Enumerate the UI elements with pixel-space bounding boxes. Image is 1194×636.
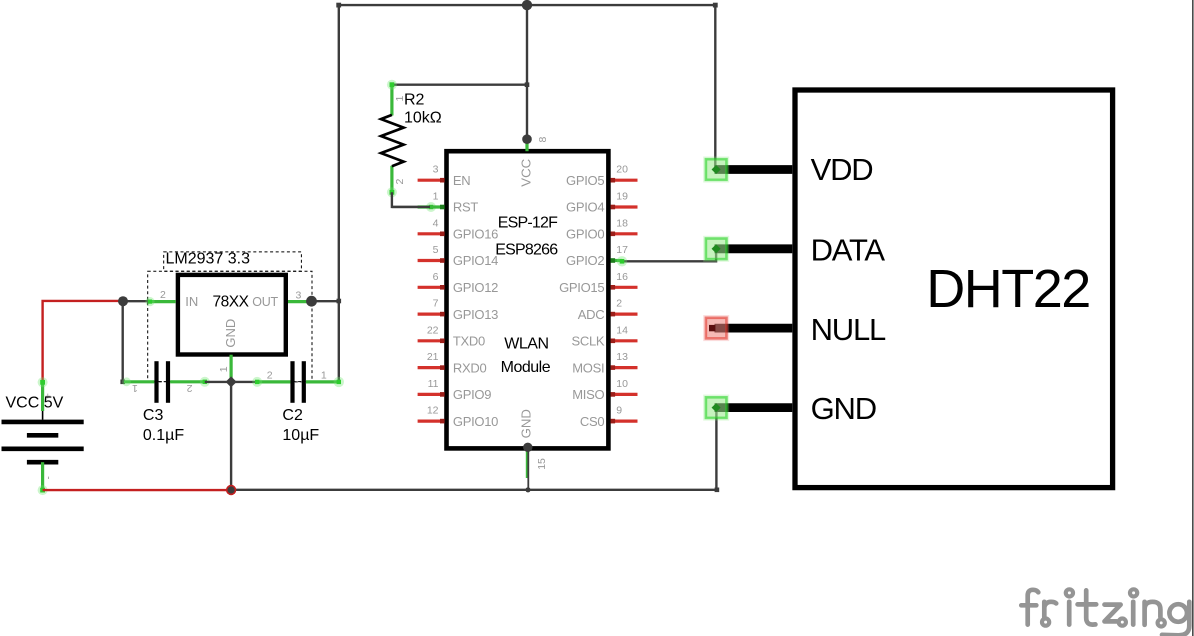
wire IN node down to C3 pin1 — [121, 301, 123, 382]
svg-text:-: - — [44, 476, 55, 479]
pin DATA of DHT22 — [703, 233, 885, 268]
node IN junction — [118, 296, 128, 306]
wire C3 pin2 to GND junction — [205, 381, 231, 383]
wire OUT node to top-rail vertical — [312, 300, 339, 302]
node junction top rail — [522, 0, 532, 10]
svg-text:TXD0: TXD0 — [453, 334, 485, 349]
sensor U3 DHT22 body — [795, 90, 1113, 488]
svg-text:SCLK: SCLK — [572, 334, 605, 349]
battery VCC 5V — [2, 377, 84, 495]
pin GPIO15 16 — [559, 271, 637, 295]
svg-text:2: 2 — [394, 179, 406, 185]
svg-text:ESP-12F: ESP-12F — [498, 214, 558, 231]
svg-text:GPIO2: GPIO2 — [566, 253, 604, 268]
svg-text:NULL: NULL — [811, 312, 886, 347]
svg-text:19: 19 — [616, 191, 628, 203]
pin MOSI 13 — [572, 351, 637, 375]
op-amp U1 ESP-12F module body — [447, 151, 609, 448]
svg-text:2: 2 — [187, 382, 193, 394]
svg-text:7: 7 — [433, 298, 439, 310]
node bottom rail junction — [226, 485, 236, 495]
pin 15 GND bottom stub — [526, 451, 529, 478]
svg-text:14: 14 — [616, 324, 628, 336]
svg-text:ADC: ADC — [578, 307, 605, 322]
svg-text:0.1µF: 0.1µF — [143, 427, 184, 444]
pin SCLK 14 — [572, 324, 638, 348]
pin 3 OUT stub — [288, 300, 312, 303]
svg-text:EN: EN — [453, 173, 470, 188]
svg-text:MISO: MISO — [572, 387, 604, 402]
wire IN node to regulator IN — [123, 300, 150, 302]
svg-text:78XX: 78XX — [213, 293, 250, 310]
pin TXD0 22 — [418, 324, 485, 348]
svg-text:21: 21 — [427, 351, 439, 363]
node GND junction (diamond) — [226, 376, 237, 387]
svg-text:GPIO12: GPIO12 — [453, 280, 498, 295]
svg-text:VDD: VDD — [811, 152, 873, 187]
node OUT junction — [306, 296, 317, 307]
wire top rail VCC net — [339, 4, 716, 6]
svg-text:VCC: VCC — [519, 158, 534, 186]
svg-text:DHT22: DHT22 — [926, 259, 1090, 319]
wire bottom rail dark (GND net) — [231, 489, 717, 491]
pin GPIO13 7 — [418, 298, 499, 322]
svg-text:GPIO16: GPIO16 — [453, 227, 498, 242]
wire bottom rail red (battery minus) — [43, 489, 232, 491]
pin MISO 10 — [572, 378, 637, 402]
svg-text:GPIO0: GPIO0 — [566, 227, 604, 242]
pin RXD0 21 — [418, 351, 487, 375]
wire vertical from top rail to OUT node — [338, 5, 340, 301]
svg-text:C3: C3 — [143, 407, 164, 424]
wire GND junction down to bottom rail — [230, 382, 232, 490]
svg-text:GND: GND — [811, 391, 876, 426]
svg-text:6: 6 — [433, 271, 439, 283]
pin 2 IN stub — [148, 300, 175, 303]
pin EN 3 — [418, 164, 471, 188]
wire GPIO2 to DHT22 DATA — [622, 249, 716, 261]
wire R2 top to VCC net — [392, 83, 527, 85]
svg-text:DATA: DATA — [811, 233, 886, 268]
svg-text:2: 2 — [616, 298, 622, 310]
pin GPIO2 17 — [566, 244, 628, 268]
pin GPIO16 4 — [418, 217, 499, 241]
right edge border line — [1192, 0, 1194, 636]
pin VDD of DHT22 — [703, 152, 872, 187]
svg-text:22: 22 — [427, 324, 439, 336]
svg-text:5: 5 — [433, 244, 439, 256]
svg-text:WLAN: WLAN — [504, 336, 548, 353]
svg-text:RXD0: RXD0 — [453, 360, 487, 375]
svg-text:2: 2 — [267, 370, 273, 382]
pin GPIO4 19 — [566, 191, 637, 215]
svg-text:1: 1 — [321, 370, 327, 382]
fritzing logo — [1021, 589, 1189, 635]
resistor R2 — [381, 80, 442, 198]
svg-text:18: 18 — [616, 217, 628, 229]
wire battery plus to IN node (red) — [43, 301, 123, 382]
svg-text:16: 16 — [616, 271, 628, 283]
svg-text:10µF: 10µF — [282, 427, 319, 444]
node small junction at ESP GND — [525, 487, 530, 492]
svg-text:R2: R2 — [404, 92, 425, 109]
pin GPIO9 11 — [418, 378, 492, 402]
svg-text:C2: C2 — [282, 407, 303, 424]
wire GND junction to C2 pin2 — [231, 381, 257, 383]
svg-text:4: 4 — [433, 217, 439, 229]
pin GND of DHT22 — [703, 391, 876, 426]
svg-text:1: 1 — [132, 382, 138, 394]
pin GPIO14 5 — [418, 244, 499, 268]
pin 8 VCC top stub — [525, 139, 528, 151]
svg-text:12: 12 — [427, 405, 439, 417]
voltage regulator U2 78XX body — [178, 275, 286, 355]
svg-text:ESP8266: ESP8266 — [495, 241, 558, 258]
svg-text:1: 1 — [433, 191, 439, 203]
capacitor C2 — [252, 361, 344, 444]
wire vertical from top rail to ESP VCC pin — [526, 5, 528, 139]
svg-text:LM2937 3.3: LM2937 3.3 — [166, 251, 251, 268]
svg-text:GPIO4: GPIO4 — [566, 200, 604, 215]
svg-text:11: 11 — [428, 378, 439, 390]
svg-text:RST: RST — [453, 200, 478, 215]
svg-text:GPIO10: GPIO10 — [453, 414, 498, 429]
svg-text:GPIO5: GPIO5 — [566, 173, 604, 188]
pin 1 GND stub of regulator — [230, 355, 233, 382]
svg-text:Module: Module — [501, 359, 551, 376]
svg-text:3: 3 — [433, 164, 439, 176]
wire bottom rail up to DHT22 GND — [715, 408, 717, 490]
pin RST 1 — [392, 191, 478, 215]
svg-text:1: 1 — [218, 366, 230, 372]
wire vertical OUT node down to C2 pin1 — [338, 301, 340, 381]
pin CS0 9 — [580, 405, 638, 429]
svg-text:GPIO13: GPIO13 — [453, 307, 498, 322]
svg-text:3: 3 — [296, 289, 302, 301]
voltage regulator U2 LM2937 selection boxes — [164, 252, 302, 271]
svg-text:IN: IN — [185, 294, 198, 309]
svg-text:GPIO9: GPIO9 — [453, 387, 491, 402]
svg-text:10: 10 — [616, 378, 628, 390]
pin GPIO5 20 — [566, 164, 637, 188]
pin ADC 2 — [578, 298, 638, 322]
pin GPIO10 12 — [418, 405, 499, 429]
svg-text:17: 17 — [616, 244, 628, 256]
svg-text:13: 13 — [616, 351, 628, 363]
svg-text:GPIO15: GPIO15 — [559, 280, 604, 295]
svg-text:15: 15 — [536, 458, 548, 470]
svg-text:9: 9 — [616, 405, 622, 417]
svg-text:OUT: OUT — [252, 295, 278, 309]
svg-text:2: 2 — [160, 289, 166, 301]
wire R2 to RST — [392, 192, 431, 207]
svg-text:MOSI: MOSI — [572, 360, 604, 375]
svg-text:GND: GND — [223, 319, 238, 348]
pin GPIO0 18 — [566, 217, 637, 241]
svg-text:GND: GND — [519, 409, 534, 438]
svg-text:10kΩ: 10kΩ — [404, 109, 442, 126]
svg-text:CS0: CS0 — [580, 414, 604, 429]
pin NULL of DHT22 — [703, 312, 886, 347]
svg-text:8: 8 — [537, 137, 549, 143]
wire vertical from top rail to DHT22 VDD — [714, 5, 716, 169]
pin GPIO12 6 — [418, 271, 499, 295]
svg-text:VCC 5V: VCC 5V — [6, 395, 64, 412]
capacitor C3 — [122, 361, 210, 444]
svg-text:GPIO14: GPIO14 — [453, 253, 498, 268]
svg-text:20: 20 — [616, 164, 628, 176]
